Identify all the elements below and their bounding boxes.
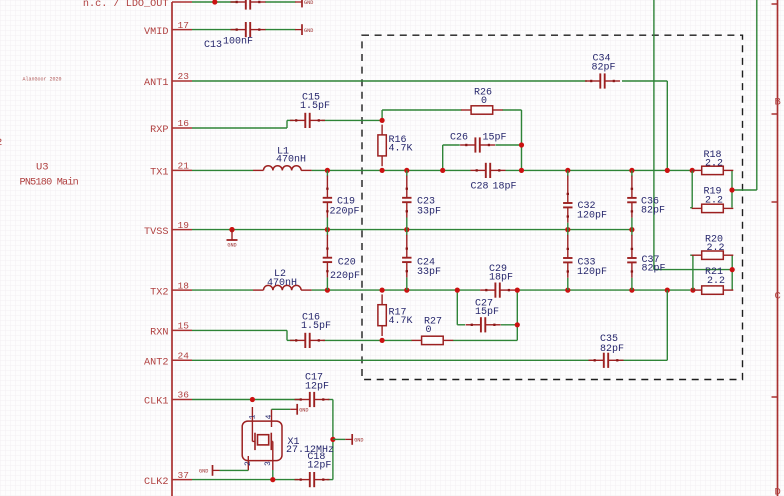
svg-text:4: 4 bbox=[265, 414, 274, 419]
svg-text:GND: GND bbox=[304, 28, 313, 34]
capacitor C19 220pF bbox=[323, 170, 360, 229]
svg-text:C28: C28 bbox=[471, 182, 489, 193]
svg-text:ANT2: ANT2 bbox=[144, 358, 168, 369]
wire net LDO_OUT bbox=[192, 1, 237, 3]
svg-text:CLK2: CLK2 bbox=[144, 477, 168, 488]
svg-text:TVSS: TVSS bbox=[144, 227, 168, 238]
crystal X1 27.12MHz bbox=[242, 407, 334, 470]
resistor R17 4.7K bbox=[378, 294, 413, 336]
ground after C13 bbox=[295, 24, 313, 35]
svg-text:12pF: 12pF bbox=[307, 460, 331, 471]
wire net CLK2 bbox=[192, 479, 298, 481]
capacitor C15 bbox=[290, 93, 330, 128]
svg-text:TX1: TX1 bbox=[150, 168, 168, 179]
svg-text:15pF: 15pF bbox=[475, 307, 499, 318]
pin 15 (RXN) of U3 bbox=[150, 321, 192, 339]
wire net CLK1 bbox=[192, 399, 299, 401]
pin stub right IC y=397 bbox=[772, 396, 778, 398]
svg-text:18pF: 18pF bbox=[493, 182, 517, 193]
IC U3 PN5180 body edge bbox=[171, 2, 173, 496]
svg-text:C26: C26 bbox=[450, 133, 468, 144]
svg-text:82pF: 82pF bbox=[592, 63, 616, 74]
svg-text:C: C bbox=[775, 291, 781, 303]
junctions on TX2 rail bbox=[325, 288, 330, 293]
pin 16 (RXP) of U3 bbox=[150, 118, 192, 136]
wire net RXP bbox=[192, 127, 287, 129]
svg-text:4.7K: 4.7K bbox=[389, 316, 413, 327]
resistor R20 2.2 bbox=[692, 235, 734, 260]
wire net TX1 rail bbox=[192, 169, 253, 171]
svg-text:2: 2 bbox=[244, 461, 253, 466]
svg-text:470nH: 470nH bbox=[267, 278, 297, 289]
svg-text:C13: C13 bbox=[204, 40, 222, 51]
wire X1 pin2 to ground bbox=[220, 469, 249, 471]
svg-text:2.2: 2.2 bbox=[705, 158, 723, 169]
capacitor C24 33pF bbox=[402, 230, 441, 291]
capacitor C23 33pF bbox=[402, 170, 441, 229]
junctions on TX1 rail bbox=[325, 168, 330, 173]
svg-text:RXP: RXP bbox=[150, 125, 168, 136]
resistor R21 2.2 bbox=[692, 267, 734, 294]
svg-text:17: 17 bbox=[178, 20, 189, 31]
svg-text:GND: GND bbox=[199, 469, 208, 475]
wire net to pin B (R18/R19 output) bbox=[756, 0, 758, 190]
svg-text:15pF: 15pF bbox=[483, 133, 507, 144]
junction C26 branch bbox=[519, 142, 524, 147]
capacitor C34 82pF bbox=[585, 53, 620, 88]
svg-text:RXN: RXN bbox=[150, 328, 168, 339]
wire long vertical net to R20/R21 bbox=[653, 0, 655, 270]
svg-text:2.2: 2.2 bbox=[707, 243, 725, 254]
resistor R26 0 bbox=[461, 88, 503, 115]
capacitor C28 18pF bbox=[471, 163, 517, 193]
svg-text:12pF: 12pF bbox=[305, 382, 329, 393]
svg-text:21: 21 bbox=[178, 161, 190, 172]
ground at X1 pin4 bbox=[290, 404, 308, 415]
svg-text:4.7K: 4.7K bbox=[389, 144, 413, 155]
junction mid GND node bbox=[330, 437, 335, 442]
junction node RXP/R16 bbox=[380, 118, 385, 123]
capacitor C36 82pF bbox=[627, 170, 665, 229]
svg-text:82pF: 82pF bbox=[600, 344, 624, 355]
wire net ANT1 bbox=[192, 80, 587, 82]
inductor L2 470nH bbox=[253, 269, 312, 290]
svg-text:B: B bbox=[775, 96, 781, 108]
junction R18/R19 right node bbox=[729, 187, 734, 192]
capacitor C13 bbox=[204, 22, 266, 51]
svg-text:AlanGoor 2020: AlanGoor 2020 bbox=[23, 77, 62, 83]
svg-text:3: 3 bbox=[264, 461, 273, 466]
capacitor C18 12pF bbox=[295, 452, 332, 487]
resistor R16 4.7K bbox=[378, 125, 413, 167]
capacitor C29 18pF bbox=[480, 264, 515, 298]
pin 37 (CLK2) of U3 bbox=[144, 470, 192, 488]
wire R20 left branch bbox=[692, 255, 694, 290]
svg-text:1.5pF: 1.5pF bbox=[300, 101, 330, 112]
svg-text:PN5180 Main: PN5180 Main bbox=[20, 177, 79, 189]
pin 36 (CLK1) of U3 bbox=[144, 390, 192, 408]
svg-text:15: 15 bbox=[178, 321, 190, 332]
pin 19 (TVSS) of U3 bbox=[144, 220, 192, 238]
resistor R27 0 bbox=[412, 317, 454, 345]
capacitor C27 15pF bbox=[466, 299, 501, 333]
wire mid node to ground bbox=[333, 438, 345, 440]
svg-text:220pF: 220pF bbox=[330, 207, 360, 218]
wire net RXN bbox=[192, 329, 287, 331]
pin stub right IC y=114 bbox=[772, 113, 778, 115]
svg-text:n.c. / LDO_OUT: n.c. / LDO_OUT bbox=[83, 0, 169, 10]
svg-text:D: D bbox=[775, 487, 781, 496]
svg-text:33pF: 33pF bbox=[417, 267, 441, 278]
svg-text:24: 24 bbox=[178, 351, 190, 362]
pin 24 (ANT2) of U3 bbox=[144, 351, 192, 369]
svg-text:23: 23 bbox=[178, 71, 190, 82]
resistor R19 2.2 bbox=[692, 186, 734, 212]
svg-text:36: 36 bbox=[178, 390, 190, 401]
svg-text:ANT1: ANT1 bbox=[144, 78, 168, 89]
wire R19 left branch bbox=[691, 170, 693, 207]
svg-text:VMID: VMID bbox=[144, 27, 168, 38]
svg-text:18: 18 bbox=[178, 280, 190, 291]
svg-text:1.5pF: 1.5pF bbox=[301, 321, 331, 332]
svg-text:220pF: 220pF bbox=[330, 271, 360, 282]
svg-text:33pF: 33pF bbox=[417, 207, 441, 218]
svg-text:GND: GND bbox=[304, 0, 313, 6]
wire net TX2 rail bbox=[192, 289, 253, 291]
svg-text:GND: GND bbox=[227, 242, 236, 248]
capacitor C12 (top, cut) bbox=[231, 0, 266, 10]
junction C27 branch bbox=[515, 322, 520, 327]
junctions on TVSS rail bbox=[229, 227, 234, 232]
svg-text:C20: C20 bbox=[338, 258, 356, 269]
svg-text:120pF: 120pF bbox=[577, 211, 607, 222]
IC U? second IC edge at right (cut off) bbox=[777, 0, 779, 496]
svg-text:120pF: 120pF bbox=[577, 267, 607, 278]
pin ? (LDO_OUT) of U3 bbox=[83, 0, 192, 10]
capacitor C16 bbox=[290, 313, 331, 348]
pin 23 (ANT1) of U3 bbox=[144, 71, 192, 89]
svg-text:2.2: 2.2 bbox=[707, 276, 725, 287]
ground at C17/C18 node bbox=[345, 434, 363, 445]
junction on LDO_OUT bbox=[212, 0, 217, 5]
dashed boundary box of RF matching network bbox=[362, 35, 743, 379]
wire net VMID bbox=[192, 29, 237, 31]
svg-text:27.12MHz: 27.12MHz bbox=[286, 445, 334, 456]
svg-text:TX2: TX2 bbox=[150, 287, 168, 298]
pin 21 (TX1) of U3 bbox=[150, 161, 192, 179]
resistor R18 2.2 bbox=[692, 150, 734, 175]
svg-text:82pF: 82pF bbox=[641, 206, 665, 217]
svg-text:2: 2 bbox=[0, 137, 2, 149]
capacitor C26 15pF bbox=[450, 133, 507, 153]
pin 17 (VMID) of U3 bbox=[144, 20, 192, 38]
svg-text:16: 16 bbox=[178, 118, 190, 129]
junction CLK2/X1 bbox=[270, 477, 275, 482]
ground at X1 pin2 bbox=[199, 465, 220, 476]
junction R20/R21 right node bbox=[730, 267, 735, 272]
svg-text:CLK1: CLK1 bbox=[144, 397, 168, 408]
svg-text:18pF: 18pF bbox=[489, 272, 513, 283]
svg-text:GND: GND bbox=[354, 438, 363, 444]
ground after C12 bbox=[295, 0, 313, 7]
capacitor C37 82pF bbox=[627, 230, 665, 291]
wire net ANT2 bbox=[192, 359, 592, 361]
inductor L1 470nH bbox=[253, 147, 312, 171]
svg-text:U3: U3 bbox=[36, 162, 49, 174]
svg-text:470nH: 470nH bbox=[276, 155, 306, 166]
svg-text:0: 0 bbox=[481, 96, 487, 107]
pin stub right IC y=202 bbox=[772, 201, 778, 203]
svg-text:19: 19 bbox=[178, 220, 190, 231]
svg-text:2.2: 2.2 bbox=[705, 195, 723, 206]
capacitor C20 220pF bbox=[323, 230, 360, 291]
capacitor C33 120pF bbox=[563, 230, 607, 291]
capacitor C17 12pF bbox=[295, 373, 330, 408]
svg-text:0: 0 bbox=[426, 325, 432, 336]
capacitor C32 120pF bbox=[563, 170, 607, 229]
pin 18 (TX2) of U3 bbox=[150, 280, 192, 298]
svg-text:37: 37 bbox=[178, 470, 189, 481]
junction CLK1/X1 bbox=[250, 397, 255, 402]
capacitor C35 82pF bbox=[589, 334, 625, 368]
svg-text:100nF: 100nF bbox=[223, 37, 253, 48]
ground at TVSS bbox=[227, 227, 238, 248]
svg-text:GND: GND bbox=[299, 408, 308, 414]
junction RXN/R17 bbox=[380, 338, 385, 343]
wire net TVSS rail bbox=[192, 229, 632, 231]
wire X1 pin4 to ground bbox=[272, 408, 291, 410]
svg-text:1: 1 bbox=[248, 414, 257, 419]
svg-text:82pF: 82pF bbox=[642, 264, 666, 275]
pin stub right IC y=4 bbox=[772, 3, 778, 5]
